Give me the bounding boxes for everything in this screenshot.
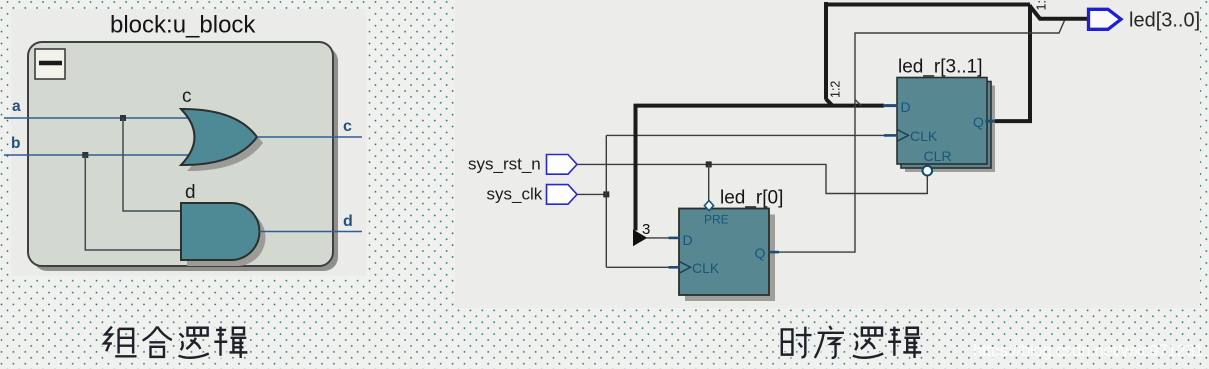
and-gate shadow: [187, 209, 265, 266]
svg-text:c: c: [182, 86, 192, 107]
wire branch to PRE: [708, 164, 710, 201]
wire sys_clk: [577, 193, 606, 195]
wire a branch to AND upper input: [123, 118, 182, 211]
bus drop to arrowhead: [634, 106, 638, 231]
bus slant to output port: [1030, 6, 1088, 19]
svg-text:d: d: [185, 182, 196, 203]
svg-text:a: a: [12, 98, 21, 115]
wire a: [4, 117, 193, 119]
wire q0 slant merge into D bus: [855, 100, 862, 106]
svg-text:b: b: [11, 135, 20, 152]
junction sys_clk: [603, 191, 609, 197]
wire sys_rst_n to CLR: [577, 164, 927, 193]
svg-text:c: c: [343, 118, 352, 135]
junction on wire b: [82, 152, 88, 158]
junction sys_rst_n / PRE branch: [706, 161, 712, 167]
svg-text:CLK: CLK: [910, 128, 938, 144]
wire led_r[0] Q net: [779, 21, 1065, 253]
caption 时序逻辑 (sequential logic): [782, 326, 921, 358]
svg-text:sys_rst_n: sys_rst_n: [468, 155, 541, 174]
svg-text:PRE: PRE: [704, 213, 729, 227]
bus arrowhead 3: [633, 230, 647, 247]
block instance icon: [35, 49, 65, 79]
wire d (AND output): [260, 231, 363, 233]
svg-text:d: d: [343, 213, 353, 230]
output port led[3..0]: [1089, 9, 1122, 29]
svg-text:CLR: CLR: [924, 148, 952, 164]
bus right vertical: [1028, 5, 1032, 122]
caption 组合逻辑 (combinational logic): [104, 327, 247, 358]
wire arrowhead to D: [646, 237, 669, 239]
pin stub Q led_r[3..1]: [986, 120, 996, 123]
pin stub Q led_r[0]: [769, 251, 779, 254]
input port sys_clk: [547, 185, 578, 205]
svg-text:CLK: CLK: [692, 260, 720, 276]
svg-text:led_r[0]: led_r[0]: [720, 188, 783, 209]
wire clk to led_r[3..1] CLK: [606, 134, 884, 136]
flip-flop led_r[3..1] stack: [897, 78, 995, 173]
svg-text:1:3: 1:3: [1035, 0, 1049, 11]
input port sys_rst_n: [547, 155, 578, 175]
or-gate OR: [181, 109, 257, 165]
svg-text:1:2: 1:2: [829, 81, 843, 98]
pin stub CLK led_r[3..1]: [884, 134, 898, 137]
svg-text:Q: Q: [973, 114, 984, 130]
wire b: [4, 154, 194, 156]
PRE diamond: [704, 201, 713, 211]
svg-text:led[3..0]: led[3..0]: [1129, 10, 1200, 32]
wire clk net vertical: [605, 135, 607, 267]
and-gate AND: [181, 203, 260, 260]
pin stub CLK led_r[0]: [669, 266, 680, 269]
or-gate shadow: [187, 115, 263, 171]
right schematic sheet background: [455, 0, 1200, 308]
svg-text:sys_clk: sys_clk: [487, 185, 543, 204]
flip-flop led_r[0]: [679, 209, 775, 302]
block u_block shadow: [33, 47, 338, 271]
wire c (OR output): [257, 136, 362, 138]
CLR bubble: [923, 166, 933, 176]
svg-text:D: D: [901, 99, 911, 115]
bus vertical feedback left: [826, 2, 833, 106]
svg-text:https://blog.csdn.net/wxc97123: https://blog.csdn.net/wxc971231: [973, 341, 1203, 360]
svg-text:Q: Q: [755, 245, 766, 261]
svg-text:D: D: [683, 232, 693, 248]
bus D led_r[3..1]: [634, 104, 885, 108]
svg-text:3: 3: [642, 221, 650, 238]
clk triangle led_r[3..1]: [898, 130, 909, 141]
block u_block body: [28, 42, 333, 266]
bus Q led_r[3..1]: [994, 119, 1032, 123]
wire clk to led_r[0] CLK: [606, 266, 668, 268]
junction on wire a: [120, 115, 126, 121]
svg-text:led_r[3..1]: led_r[3..1]: [898, 57, 983, 78]
left schematic sheet background: [11, 9, 366, 276]
bus top horizontal: [824, 3, 1030, 7]
pin stub D led_r[3..1]: [883, 104, 898, 107]
svg-text:block:u_block: block:u_block: [110, 12, 256, 39]
clk triangle led_r[0]: [680, 262, 691, 273]
pin stub D led_r[0]: [669, 237, 680, 240]
wire b branch to AND lower input: [85, 155, 182, 250]
